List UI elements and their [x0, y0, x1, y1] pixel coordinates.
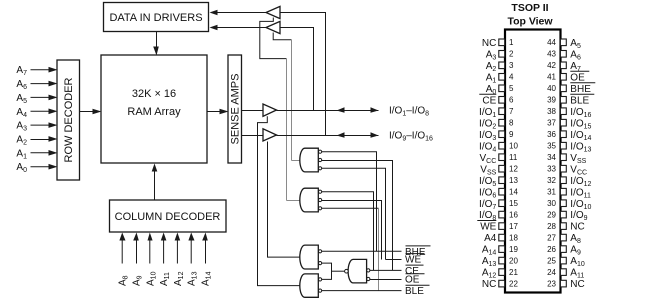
- svg-text:10: 10: [509, 142, 518, 151]
- svg-text:BLE: BLE: [570, 95, 589, 106]
- svg-text:15: 15: [509, 199, 518, 208]
- svg-text:13: 13: [509, 176, 518, 185]
- pin 22 NC (left) / pin 23 NC (right): [482, 279, 585, 290]
- buffer tri-state amp B3 (output upper): [263, 104, 277, 116]
- svg-text:I/O1–I/O8: I/O1–I/O8: [389, 106, 429, 118]
- wire B4 enable net from read gate G3: [268, 142, 301, 258]
- pin 13 I/O5 (left) / pin 32 I/O12 (right): [479, 176, 591, 188]
- input A7 with arrow into row decoder: [16, 65, 57, 77]
- svg-text:35: 35: [547, 142, 556, 151]
- wire G2 input1 to CE net vertical: [322, 192, 374, 271]
- svg-text:20: 20: [509, 257, 518, 266]
- svg-text:2: 2: [509, 50, 514, 59]
- svg-text:23: 23: [547, 280, 556, 289]
- svg-text:40: 40: [547, 84, 556, 93]
- svg-text:A4: A4: [484, 233, 497, 244]
- svg-text:31: 31: [547, 188, 556, 197]
- node OE control line and label: [370, 274, 425, 286]
- wire column decoder to RAM array with arrow: [152, 164, 158, 201]
- svg-text:14: 14: [509, 188, 518, 197]
- svg-text:SENSE AMPS: SENSE AMPS: [229, 74, 241, 145]
- pin 20 A13 (left) / pin 25 A10 (right): [482, 256, 585, 268]
- svg-text:NC: NC: [570, 222, 584, 233]
- node CE control line and label: [370, 265, 424, 277]
- package outline TSOP II body: [505, 30, 561, 293]
- input A10 with arrow into column decoder: [145, 233, 157, 287]
- svg-text:26: 26: [547, 245, 556, 254]
- memory block U3 32Kx16 RAM Array: [101, 55, 207, 163]
- svg-text:41: 41: [547, 73, 556, 82]
- input A4 with arrow into row decoder: [16, 107, 57, 119]
- svg-text:3: 3: [509, 61, 514, 70]
- wire G1 input1 to BHE net vertical: [322, 152, 377, 252]
- input A6 with arrow into row decoder: [16, 79, 57, 91]
- svg-text:OE: OE: [405, 275, 420, 286]
- wire NAND G5 output net to G3 and G4 inputs: [322, 263, 345, 279]
- wire B1 enable net to write gate G2: [260, 18, 301, 201]
- svg-text:Top View: Top View: [507, 16, 553, 28]
- svg-text:7: 7: [509, 107, 514, 116]
- node IO1-8 bus line with bidirectional arrows and label: [277, 106, 430, 118]
- pin 19 A14 (left) / pin 26 A9 (right): [482, 245, 581, 257]
- wire RAM array to sense amps with arrow: [208, 109, 229, 115]
- node IO9-16 bus line with bidirectional arrows and label: [277, 131, 434, 143]
- svg-text:OE: OE: [570, 72, 585, 83]
- pin 9 I/O3 (left) / pin 36 I/O14 (right): [479, 130, 591, 142]
- svg-text:BLE: BLE: [405, 286, 424, 297]
- svg-text:5: 5: [509, 84, 514, 93]
- svg-text:TSOP II: TSOP II: [511, 2, 548, 14]
- and gate G2 (byte low write enable, 3 bubbled inputs): [300, 188, 322, 212]
- pin 10 I/O4 (left) / pin 35 I/O13 (right): [479, 141, 591, 153]
- wire G2 input3 to BLE net vertical: [322, 208, 379, 290]
- svg-text:43: 43: [547, 50, 556, 59]
- svg-text:NC: NC: [570, 279, 584, 290]
- svg-text:COLUMN DECODER: COLUMN DECODER: [115, 211, 221, 223]
- svg-text:16: 16: [509, 211, 518, 220]
- svg-text:33: 33: [547, 165, 556, 174]
- pin 17 WE (left) / pin 28 NC (right): [477, 221, 584, 233]
- pin 18 A4 (left) / pin 27 A8 (right): [484, 233, 581, 245]
- svg-text:WE: WE: [480, 222, 496, 233]
- svg-text:9: 9: [509, 130, 514, 139]
- svg-text:WE: WE: [405, 255, 421, 266]
- wire G1 input2 to CE net vertical: [322, 161, 393, 271]
- svg-text:11: 11: [509, 153, 518, 162]
- pin 2 A3 (left) / pin 43 A6 (right): [486, 49, 581, 61]
- decoder block U2 ROW DECODER: [57, 60, 80, 180]
- svg-text:1: 1: [509, 38, 514, 47]
- wire sense amps to B4: [242, 135, 264, 137]
- input A0 with arrow into row decoder: [16, 162, 57, 174]
- wire row decoder output to RAM array with arrow: [80, 109, 102, 115]
- svg-text:44: 44: [547, 38, 556, 47]
- wire data in drivers to RAM array with arrow: [153, 32, 159, 56]
- input A14 with arrow into column decoder: [201, 233, 213, 287]
- pin 12 VSS (left) / pin 33 VCC (right): [480, 164, 587, 176]
- svg-text:NC: NC: [482, 279, 496, 290]
- pin 15 I/O7 (left) / pin 30 I/O10 (right): [479, 199, 591, 211]
- svg-text:19: 19: [509, 245, 518, 254]
- pin 14 I/O6 (left) / pin 31 I/O11 (right): [479, 187, 591, 199]
- input A13 with arrow into column decoder: [187, 233, 199, 287]
- pin 5 A0 (left) / pin 40 BHE (right): [486, 83, 596, 96]
- wire B2 output to data in drivers with arrow: [210, 25, 267, 31]
- svg-text:DATA IN DRIVERS: DATA IN DRIVERS: [109, 12, 202, 24]
- svg-text:30: 30: [547, 199, 556, 208]
- wire B3 enable net from read gate G4: [258, 116, 301, 285]
- pin 3 A2 (left) / pin 42 A7 (right): [486, 61, 581, 73]
- wire G2 input2 to WE net vertical: [322, 201, 382, 260]
- pin 6 CE (left) / pin 39 BLE (right): [479, 94, 594, 106]
- svg-text:18: 18: [509, 234, 518, 243]
- pin 7 I/O1 (left) / pin 38 I/O16 (right): [479, 107, 591, 119]
- svg-text:32K × 16: 32K × 16: [132, 88, 176, 100]
- svg-text:6: 6: [509, 96, 514, 105]
- pin 1 NC (left) / pin 44 A5 (right): [482, 38, 581, 50]
- svg-text:ROW DECODER: ROW DECODER: [63, 77, 75, 162]
- svg-text:28: 28: [547, 222, 556, 231]
- pin 8 I/O2 (left) / pin 37 I/O15 (right): [479, 118, 591, 130]
- pin 21 A12 (left) / pin 24 A11 (right): [482, 268, 585, 280]
- pinout title TSOP II Top View: [507, 2, 553, 28]
- svg-text:24: 24: [547, 268, 556, 277]
- input A1 with arrow into row decoder: [16, 148, 57, 160]
- svg-text:39: 39: [547, 96, 556, 105]
- svg-text:8: 8: [509, 119, 514, 128]
- svg-text:37: 37: [547, 119, 556, 128]
- decoder block U5 COLUMN DECODER: [110, 200, 227, 232]
- svg-text:CE: CE: [482, 95, 496, 106]
- and gate G1 (byte high write enable, 3 bubbled inputs): [300, 148, 322, 172]
- pin 4 A1 (left) / pin 41 OE (right): [486, 71, 590, 84]
- node BLE control line and label: [322, 285, 430, 297]
- wire B1 output to data in drivers with arrow: [210, 10, 267, 16]
- and gate G3 (byte high read enable, 2 bubbled inputs): [300, 245, 322, 269]
- buffer tri-state amp B4 (output lower): [263, 129, 277, 141]
- svg-text:32: 32: [547, 176, 556, 185]
- input A9 with arrow into column decoder: [132, 233, 144, 287]
- wire sense amps to B3: [242, 110, 264, 112]
- wire B2 enable net to write gate G1: [273, 33, 300, 161]
- svg-text:4: 4: [509, 73, 514, 82]
- nand gate G5 (chip/output enable combiner): [345, 259, 370, 283]
- buffer tri-state amp B1 (data in upper): [266, 6, 280, 18]
- and gate G4 (byte low read enable, 2 bubbled inputs): [300, 274, 322, 297]
- svg-text:17: 17: [509, 222, 518, 231]
- svg-text:21: 21: [509, 268, 518, 277]
- input A12 with arrow into column decoder: [173, 233, 185, 287]
- pin 16 I/O8 (left) / pin 29 I/O9 (right): [479, 210, 588, 222]
- node WE control line and label: [386, 254, 425, 266]
- svg-text:RAM Array: RAM Array: [127, 106, 181, 118]
- wire B1 input from IO9-16 bus vertical: [281, 13, 326, 136]
- svg-text:42: 42: [547, 61, 556, 70]
- amplifier block U4 SENSE AMPS: [228, 55, 242, 163]
- svg-text:BHE: BHE: [570, 84, 591, 95]
- input A8 with arrow into column decoder: [118, 233, 130, 287]
- svg-text:22: 22: [509, 280, 518, 289]
- input A5 with arrow into row decoder: [16, 93, 57, 105]
- svg-text:27: 27: [547, 234, 556, 243]
- svg-text:29: 29: [547, 211, 556, 220]
- svg-text:NC: NC: [482, 38, 496, 49]
- input A3 with arrow into row decoder: [16, 121, 57, 133]
- svg-text:38: 38: [547, 107, 556, 116]
- wire G1 input3 to WE net vertical: [322, 168, 386, 259]
- svg-text:12: 12: [509, 165, 518, 174]
- input A11 with arrow into column decoder: [159, 233, 171, 287]
- buffer tri-state amp B2 (data in lower): [266, 21, 280, 33]
- svg-text:36: 36: [547, 130, 556, 139]
- input A2 with arrow into row decoder: [16, 135, 57, 147]
- svg-text:25: 25: [547, 257, 556, 266]
- svg-text:34: 34: [547, 153, 556, 162]
- wire B2 input from IO1-8 bus vertical: [281, 28, 314, 111]
- node BHE control line and label: [322, 246, 431, 258]
- pin 11 VCC (left) / pin 34 VSS (right): [480, 153, 587, 165]
- buffer block U1 DATA IN DRIVERS: [104, 3, 209, 32]
